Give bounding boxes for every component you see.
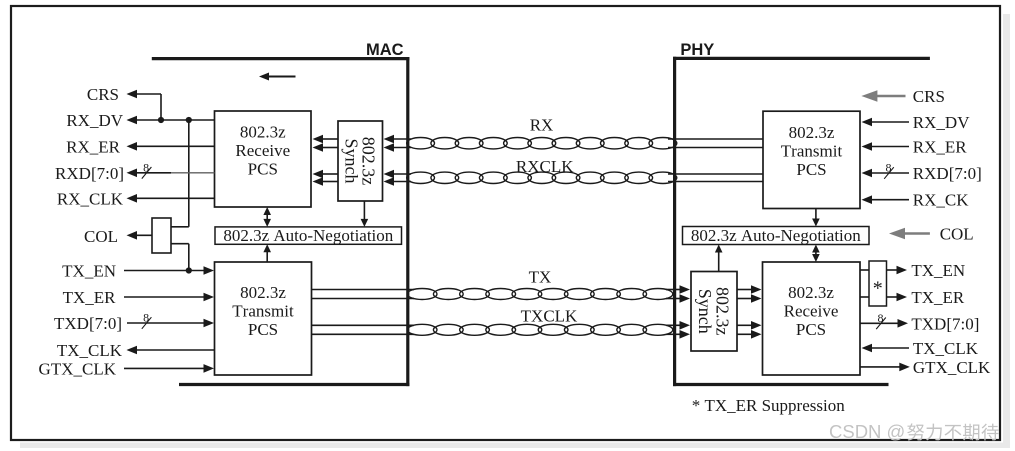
- wire TX_EN (PHY): [860, 266, 907, 275]
- TX_ER label (PHY): [911, 288, 965, 307]
- svg-text:TX_EN: TX_EN: [62, 262, 116, 281]
- wire COL: [127, 231, 153, 240]
- PHY label: [680, 41, 714, 59]
- svg-text:RX_CK: RX_CK: [913, 191, 969, 210]
- wire TX_EN: [124, 266, 214, 275]
- svg-text:Transmit: Transmit: [232, 302, 294, 321]
- svg-text:Receive: Receive: [784, 302, 839, 321]
- svg-text:TX: TX: [529, 268, 552, 287]
- wire RX_DV: [127, 116, 215, 125]
- arrows Synch to Receive PCS (MAC) RX pair: [313, 135, 339, 152]
- PHY block top edge: [673, 57, 930, 60]
- wire TX_ER (PHY): [860, 293, 907, 302]
- TX pair wires (MAC side): [312, 290, 415, 299]
- svg-text:RXD[7:0]: RXD[7:0]: [55, 164, 124, 183]
- RX_ER label (PHY): [913, 138, 968, 157]
- svg-text:802.3z: 802.3z: [789, 123, 835, 142]
- TXCLK pair wires (MAC side): [312, 325, 415, 334]
- svg-text:RXCLK: RXCLK: [516, 157, 574, 176]
- arrows twisted pair RX into Synch (MAC): [384, 135, 412, 152]
- svg-text:GTX_CLK: GTX_CLK: [39, 359, 117, 378]
- svg-text:* TX_ER Suppression: * TX_ER Suppression: [692, 396, 846, 415]
- svg-text:RX_DV: RX_DV: [66, 111, 123, 130]
- COL combiner box: [152, 218, 171, 253]
- RXCLK pair wires (PHY side): [668, 174, 763, 182]
- svg-text:PCS: PCS: [796, 160, 826, 179]
- svg-text:*: *: [873, 278, 883, 300]
- TX_CLK label (MAC): [57, 341, 123, 360]
- COL label (MAC): [84, 227, 118, 246]
- wire TX_CLK (PHY): [862, 344, 910, 353]
- svg-text:8: 8: [143, 311, 149, 325]
- svg-text:PCS: PCS: [248, 160, 278, 179]
- MAC label: [366, 41, 404, 59]
- wire RX_CK (PHY): [862, 195, 910, 204]
- svg-text:8: 8: [886, 161, 892, 175]
- wire COL box to TX_EN junction: [171, 244, 189, 271]
- TXD[7:0] label (PHY): [911, 314, 979, 333]
- junction dot CRS/RX_DV: [158, 117, 164, 123]
- MAC 802.3z Transmit PCS box: [215, 262, 312, 375]
- arrow Transmit PCS to Auto-Negotiation (MAC): [263, 244, 271, 262]
- wire TXD bus: [127, 319, 214, 328]
- svg-text:CSDN @: CSDN @: [829, 421, 905, 442]
- wire RX_CLK: [127, 194, 215, 203]
- svg-text:Synch: Synch: [695, 289, 715, 334]
- svg-text:802.3z: 802.3z: [788, 283, 834, 302]
- shadow bottom strip: [20, 443, 1010, 449]
- svg-text:802.3z: 802.3z: [240, 123, 286, 142]
- wire RX_DV (PHY): [862, 118, 910, 127]
- wire RX_ER: [127, 142, 215, 151]
- TX_EN label (PHY): [911, 261, 965, 280]
- CRS label (MAC): [87, 85, 119, 104]
- junction dot TX_EN/COL: [186, 267, 192, 273]
- twisted pair RXCLK: [407, 172, 677, 183]
- arrows twisted pair TXCLK into Synch (PHY): [666, 321, 690, 339]
- svg-text:TX_ER: TX_ER: [911, 288, 965, 307]
- wire CRS: [127, 90, 162, 120]
- svg-text:RX_ER: RX_ER: [66, 137, 121, 156]
- svg-text:RX: RX: [530, 116, 554, 135]
- PHY 802.3z Receive PCS box: [763, 262, 861, 375]
- twisted pair TX: [407, 289, 673, 300]
- TX_EN label (MAC): [62, 262, 116, 281]
- svg-text:PHY: PHY: [680, 41, 714, 59]
- svg-text:TX_ER: TX_ER: [63, 288, 117, 307]
- svg-text:TXD[7:0]: TXD[7:0]: [54, 314, 122, 333]
- svg-text:GTX_CLK: GTX_CLK: [913, 358, 991, 377]
- wire TX_CLK: [127, 346, 215, 355]
- CRS gray arrow (PHY): [861, 90, 905, 101]
- RX_ER label (MAC): [66, 137, 121, 156]
- RXD[7:0] label (PHY): [913, 164, 982, 183]
- RXCLK net label: [516, 157, 574, 176]
- junction dot RX_DV/COL: [186, 117, 192, 123]
- wire RXD bus: [127, 169, 215, 178]
- svg-text:802.3z: 802.3z: [240, 283, 286, 302]
- arrow Synch to Auto-Negotiation (PHY): [715, 245, 723, 272]
- svg-text:Receive: Receive: [235, 141, 290, 160]
- svg-text:Synch: Synch: [342, 139, 362, 184]
- bus width 8 marker TXD (MAC): [142, 311, 152, 329]
- svg-text:8: 8: [143, 160, 149, 174]
- bus width 8 marker TXD (PHY): [876, 311, 886, 329]
- TXD[7:0] label (MAC): [54, 314, 122, 333]
- MAC 802.3z Receive PCS box: [215, 111, 312, 207]
- svg-text:PCS: PCS: [248, 320, 278, 339]
- svg-text:COL: COL: [84, 227, 118, 246]
- MAC loopback arrow: [259, 73, 296, 81]
- double arrow Receive PCS / Auto-Negotiation (MAC): [263, 207, 271, 227]
- svg-text:RX_DV: RX_DV: [913, 113, 970, 132]
- RX_DV label (PHY): [913, 113, 970, 132]
- TX net label: [529, 268, 552, 287]
- PHY 802.3z Auto-Negotiation box: [683, 226, 870, 245]
- svg-text:TXD[7:0]: TXD[7:0]: [911, 314, 979, 333]
- double arrow Auto-Negotiation / Receive PCS (PHY): [812, 245, 820, 263]
- RX pair wires (PHY side): [668, 139, 763, 148]
- svg-text:802.3z Auto-Negotiation: 802.3z Auto-Negotiation: [691, 226, 861, 245]
- arrows Synch to Receive PCS (MAC) RXCLK pair: [313, 170, 339, 186]
- COL label (PHY): [940, 225, 974, 244]
- svg-text:TXCLK: TXCLK: [521, 307, 578, 326]
- arrow Transmit PCS to Auto-Negotiation (PHY): [812, 209, 820, 227]
- TXCLK net label: [521, 307, 578, 326]
- svg-text:TX_CLK: TX_CLK: [913, 339, 979, 358]
- MAC block bottom edge: [179, 383, 409, 386]
- COL gray arrow (PHY): [889, 228, 930, 239]
- wire GTX_CLK (PHY): [860, 363, 910, 372]
- wire GTX_CLK: [124, 364, 214, 373]
- bus width 8 marker RXD (PHY): [884, 161, 894, 179]
- svg-text:MAC: MAC: [366, 41, 404, 59]
- svg-text:TX_CLK: TX_CLK: [57, 341, 123, 360]
- RXD[7:0] label (MAC): [55, 164, 124, 183]
- shadow right strip: [1003, 14, 1010, 448]
- arrow Synch to Auto-Negotiation (MAC): [361, 201, 369, 227]
- wire TX_ER: [124, 293, 214, 302]
- MAC 802.3z Auto-Negotiation box: [215, 226, 402, 245]
- bus width 8 marker RXD (MAC): [142, 160, 152, 178]
- arrows Synch to Receive PCS (PHY) TX pair: [737, 285, 762, 303]
- CRS label (PHY): [913, 87, 945, 106]
- GTX_CLK label (PHY): [913, 358, 991, 377]
- wire RXD bus (PHY): [862, 169, 910, 178]
- RX_CK label (PHY): [913, 191, 969, 210]
- RX net label: [530, 116, 554, 135]
- svg-text:COL: COL: [940, 225, 974, 244]
- arrows twisted pair TX into Synch (PHY): [666, 285, 690, 303]
- svg-text:802.3z Auto-Negotiation: 802.3z Auto-Negotiation: [223, 226, 393, 245]
- svg-text:RX_CLK: RX_CLK: [57, 189, 124, 208]
- arrows Synch to Receive PCS (PHY) TXCLK pair: [737, 321, 762, 339]
- wire TXD bus (PHY): [860, 319, 908, 328]
- MAC block right edge: [406, 57, 409, 386]
- svg-text:TX_EN: TX_EN: [911, 261, 965, 280]
- wire RX_ER (PHY): [862, 142, 910, 151]
- svg-text:RX_ER: RX_ER: [913, 138, 968, 157]
- RX_CLK label (MAC): [57, 189, 124, 208]
- svg-text:RXD[7:0]: RXD[7:0]: [913, 164, 982, 183]
- TX_ER label (MAC): [63, 288, 117, 307]
- PHY block left edge: [673, 57, 676, 386]
- arrows twisted pair RXCLK into Synch (MAC): [384, 170, 412, 186]
- TX_ER suppression asterisk box: [869, 261, 887, 306]
- twisted pair TXCLK: [407, 324, 673, 335]
- wire RX_DV junction to COL box: [171, 120, 189, 227]
- PHY 802.3z Synch box: [691, 272, 737, 352]
- svg-text:CRS: CRS: [913, 87, 945, 106]
- TX_CLK label (PHY): [913, 339, 979, 358]
- svg-text:Transmit: Transmit: [781, 142, 843, 161]
- RX_DV label (MAC): [66, 111, 123, 130]
- MAC block top edge: [152, 57, 410, 60]
- PHY 802.3z Transmit PCS box: [763, 111, 860, 208]
- CSDN watermark: [829, 421, 999, 442]
- svg-text:8: 8: [878, 311, 884, 325]
- TX_ER suppression footnote: [692, 396, 846, 415]
- MAC 802.3z Synch box: [338, 121, 383, 201]
- twisted pair RX: [407, 138, 677, 149]
- GTX_CLK label (MAC): [39, 359, 117, 378]
- PHY block bottom edge: [673, 383, 889, 386]
- svg-text:CRS: CRS: [87, 85, 119, 104]
- svg-text:PCS: PCS: [796, 320, 826, 339]
